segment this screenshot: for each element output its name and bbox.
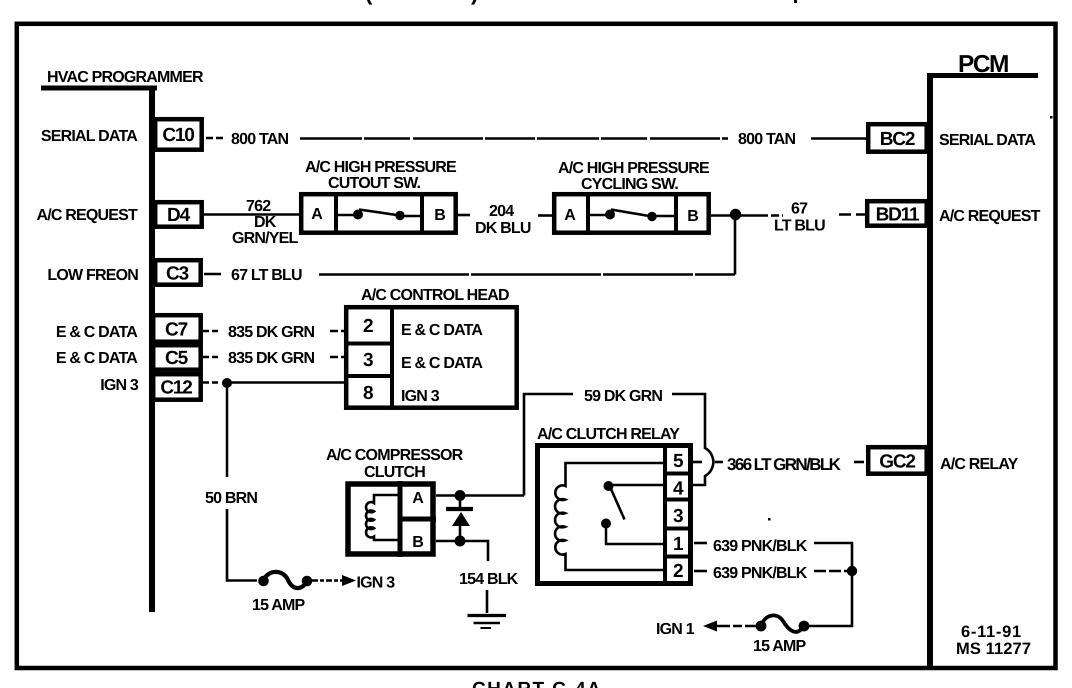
svg-text:A/C COMPRESSOR: A/C COMPRESSOR <box>326 447 464 464</box>
wire label 67 LT BLU (right) <box>774 201 825 235</box>
fuse 15 AMP (IGN 1) <box>756 615 810 631</box>
wire 59 DK GRN to relay pin 4 with hop <box>672 394 714 485</box>
wire tick C12 <box>203 381 219 384</box>
A/C control head body <box>344 305 517 410</box>
wire label 800 TAN (left) <box>231 131 288 148</box>
wire tick C10 <box>206 137 223 140</box>
cycling switch contacts and arm <box>590 210 675 222</box>
svg-text:MS 11277: MS 11277 <box>956 640 1031 658</box>
relay switch contact to pin 4 <box>604 481 666 491</box>
svg-text:C12: C12 <box>160 378 192 399</box>
relay pin 3 <box>673 506 683 527</box>
wire to BD11 <box>839 213 865 216</box>
compressor clutch pin B <box>412 534 424 551</box>
svg-text:A/C HIGH PRESSURE: A/C HIGH PRESSURE <box>305 159 457 176</box>
svg-text:A/C CLUTCH RELAY: A/C CLUTCH RELAY <box>537 426 680 443</box>
svg-text:4: 4 <box>673 479 684 500</box>
wire tick relay pin 2 <box>694 570 707 573</box>
svg-text:835 DK GRN: 835 DK GRN <box>228 350 314 367</box>
svg-text:A/C REQUEST: A/C REQUEST <box>939 208 1041 225</box>
svg-text:A/C CONTROL HEAD: A/C CONTROL HEAD <box>361 287 509 304</box>
svg-text:2: 2 <box>673 561 683 582</box>
svg-text:E & C DATA: E & C DATA <box>401 355 483 372</box>
connector GC2 <box>868 447 927 474</box>
relay pin 2 <box>673 561 683 582</box>
A/C high pressure cutout switch body <box>301 192 456 234</box>
svg-text:IGN 3: IGN 3 <box>401 388 440 405</box>
svg-text:800 TAN: 800 TAN <box>231 131 288 148</box>
svg-text:SERIAL DATA: SERIAL DATA <box>939 132 1036 149</box>
svg-text:67 LT BLU: 67 LT BLU <box>231 267 302 284</box>
svg-text:HVAC PROGRAMMER: HVAC PROGRAMMER <box>47 69 204 86</box>
wire 50 BRN vertical lower <box>227 509 257 581</box>
wire tick to head pin 2 <box>330 330 344 333</box>
svg-text:C5: C5 <box>165 348 189 369</box>
A/C high pressure cycling switch body <box>554 193 709 235</box>
svg-text:C7: C7 <box>165 320 188 341</box>
wire 67 LT BLU long <box>319 273 735 276</box>
A/C control head title <box>361 287 509 304</box>
svg-text:IGN 3: IGN 3 <box>357 575 396 592</box>
wire label to cycling switch <box>538 214 552 217</box>
svg-text:15 AMP: 15 AMP <box>753 638 807 655</box>
connector C5 <box>153 345 201 370</box>
wire clutch B to ground drop <box>436 541 488 561</box>
wire 800 TAN long <box>300 137 728 140</box>
relay switch arm <box>611 489 625 520</box>
relay pin 5 <box>673 451 684 472</box>
svg-text:639 PNK/BLK: 639 PNK/BLK <box>713 565 808 582</box>
svg-text:B: B <box>687 208 699 225</box>
label E & C DATA row 1 <box>56 324 138 341</box>
svg-text:CHART C-4A: CHART C-4A <box>472 679 602 688</box>
svg-text:C3: C3 <box>166 264 189 285</box>
svg-text:366 LT GRN/BLK: 366 LT GRN/BLK <box>727 455 842 474</box>
junction node 639 <box>847 566 857 576</box>
svg-text:67: 67 <box>791 201 808 218</box>
wire drop to fuse <box>809 571 852 626</box>
cutout switch pin B <box>434 207 446 224</box>
svg-text:A/C RELAY: A/C RELAY <box>940 456 1019 473</box>
label SERIAL DATA (left) <box>41 128 138 145</box>
svg-text:1: 1 <box>673 534 684 555</box>
wire tick C3 <box>204 273 221 276</box>
cropped title text top <box>365 0 1053 521</box>
diode D (clamp) <box>446 495 473 541</box>
svg-text:639 PNK/BLK: 639 PNK/BLK <box>713 538 808 555</box>
svg-text:C10: C10 <box>162 125 194 146</box>
svg-text:B: B <box>412 534 424 551</box>
cropped chart title bottom <box>472 679 602 688</box>
PCM boundary line <box>927 73 933 668</box>
net label IGN 3 <box>357 575 396 592</box>
relay pin 1 <box>673 534 684 555</box>
PCM top bar <box>927 73 1038 78</box>
wire label 835 DK GRN row 1 <box>228 324 314 341</box>
wire tick relay pin 1 <box>694 542 707 545</box>
wire pin 2 to junction <box>814 570 852 573</box>
svg-text:B: B <box>434 207 446 224</box>
wire 50 BRN vertical upper <box>226 383 229 477</box>
svg-text:SERIAL DATA: SERIAL DATA <box>41 128 138 145</box>
PCM label <box>958 51 1008 78</box>
label E & C DATA row 2 <box>56 350 138 367</box>
ground symbol <box>468 616 507 629</box>
cycling switch pin A <box>564 207 576 224</box>
control head pin 3 <box>363 350 373 371</box>
label A/C RELAY (right) <box>940 456 1019 473</box>
connector C12 <box>153 374 201 400</box>
wire 800 TAN to BC2 <box>811 137 866 140</box>
junction node diode top <box>455 490 466 501</box>
A/C compressor clutch body <box>348 481 436 557</box>
wire label 366 LT GRN/BLK <box>727 455 842 474</box>
svg-text:3: 3 <box>673 506 683 527</box>
relay pin 4 <box>673 479 684 500</box>
net label IGN 1 <box>656 621 695 638</box>
A/C high pressure cutout switch title <box>305 159 457 192</box>
relay coil <box>555 463 665 570</box>
control head pin 8 <box>363 383 373 404</box>
wire relay pin 5 output <box>693 461 723 464</box>
svg-text:835 DK GRN: 835 DK GRN <box>228 324 314 341</box>
control head label IGN 3 pin 8 <box>401 388 440 405</box>
label IGN 3 (left) <box>100 377 139 394</box>
svg-text:59 DK GRN: 59 DK GRN <box>584 388 662 405</box>
date label 6-11-91 <box>961 623 1022 641</box>
wire label 835 DK GRN row 2 <box>228 350 314 367</box>
connector C10 <box>155 119 202 150</box>
wire cycling B to junction <box>711 214 760 217</box>
compressor clutch pin A <box>412 490 424 507</box>
svg-text:LOW FREON: LOW FREON <box>47 267 138 284</box>
control head label E & C DATA pin 3 <box>401 355 483 372</box>
svg-text:154 BLK: 154 BLK <box>459 571 519 588</box>
junction node diode bottom <box>455 536 466 547</box>
svg-text:5: 5 <box>673 451 684 472</box>
wire D4 to cutout switch <box>204 213 299 216</box>
wire label 762 DK GRN/YEL <box>232 198 299 247</box>
svg-text:LT BLU: LT BLU <box>774 218 825 235</box>
control head label E & C DATA pin 2 <box>401 322 483 339</box>
cycling switch pin B <box>687 208 699 225</box>
wire tick C7 <box>203 330 218 333</box>
cutout switch contacts and arm <box>338 210 421 221</box>
compressor clutch coil <box>366 495 398 540</box>
fuse label 15 AMP (left) <box>252 597 306 614</box>
wire label 800 TAN (right) <box>738 131 795 148</box>
svg-text:CLUTCH: CLUTCH <box>364 464 425 481</box>
connector C7 <box>153 315 201 342</box>
HVAC programmer boundary line <box>149 86 155 613</box>
svg-text:CYCLING SW.: CYCLING SW. <box>581 176 678 193</box>
svg-text:DK BLU: DK BLU <box>475 220 531 237</box>
junction node 67 LT BLU <box>730 209 741 220</box>
svg-text:D4: D4 <box>167 205 191 226</box>
svg-text:A: A <box>311 206 323 223</box>
svg-text:15 AMP: 15 AMP <box>252 597 306 614</box>
A/C clutch relay title <box>537 426 680 443</box>
A/C compressor clutch title <box>326 447 464 481</box>
fuse 15 AMP (IGN 3) <box>258 572 312 588</box>
svg-text:A: A <box>564 207 576 224</box>
svg-text:A/C HIGH PRESSURE: A/C HIGH PRESSURE <box>558 160 710 177</box>
svg-text:A: A <box>412 490 424 507</box>
arrow to IGN 1 <box>703 621 756 632</box>
HVAC PROGRAMMER label <box>47 69 204 86</box>
relay switch contact to pin 1 <box>601 519 665 545</box>
svg-text:DK: DK <box>254 214 277 231</box>
doc label MS 11277 <box>956 640 1031 658</box>
cutout switch pin A <box>311 206 323 223</box>
wire to ground <box>486 590 489 613</box>
arrow to IGN 3 <box>312 575 356 586</box>
svg-text:(: ( <box>365 0 373 5</box>
label A/C REQUEST (left) <box>36 207 138 224</box>
connector BD11 <box>867 201 927 226</box>
svg-text:800 TAN: 800 TAN <box>738 131 795 148</box>
connector C3 <box>155 260 201 285</box>
wire label 639 PNK/BLK pin 2 <box>713 565 808 582</box>
connector D4 <box>155 202 202 227</box>
svg-text:2: 2 <box>363 316 373 337</box>
wire label 639 PNK/BLK pin 1 <box>713 538 808 555</box>
wire junction riser <box>734 215 737 275</box>
svg-text:204: 204 <box>489 203 514 220</box>
svg-text:8: 8 <box>363 383 373 404</box>
svg-text:E & C DATA: E & C DATA <box>56 324 138 341</box>
svg-text:A/C REQUEST: A/C REQUEST <box>36 207 138 224</box>
wire tick to head pin 3 <box>330 356 344 359</box>
svg-text:6-11-91: 6-11-91 <box>961 623 1022 641</box>
svg-text:GC2: GC2 <box>879 452 915 473</box>
label A/C REQUEST (right) <box>939 208 1041 225</box>
wire clutch A to riser <box>436 494 524 497</box>
svg-text:BC2: BC2 <box>880 129 915 150</box>
wire label 59 DK GRN <box>584 388 662 405</box>
wire tick C5 <box>203 356 218 359</box>
wire cutout B to label <box>458 214 470 217</box>
wire C12 to head pin 8 <box>227 381 344 384</box>
svg-text:BD11: BD11 <box>876 205 920 226</box>
wire label 204 DK BLU <box>475 203 531 237</box>
A/C high pressure cycling switch title <box>558 160 710 193</box>
svg-text:CUTOUT SW.: CUTOUT SW. <box>328 175 421 192</box>
svg-text:GRN/YEL: GRN/YEL <box>232 230 299 247</box>
wire label 50 BRN <box>205 490 257 507</box>
svg-text:50 BRN: 50 BRN <box>205 490 257 507</box>
label SERIAL DATA (right) <box>939 132 1036 149</box>
control head pin 2 <box>363 316 373 337</box>
svg-text:E & C DATA: E & C DATA <box>56 350 138 367</box>
A/C clutch relay body <box>538 443 694 586</box>
svg-text:762: 762 <box>246 198 271 215</box>
connector BC2 <box>868 124 927 152</box>
svg-text:3: 3 <box>363 350 373 371</box>
wire to GC2 <box>854 461 864 464</box>
junction node IGN3 split <box>222 378 232 388</box>
wire pin 1 to drop <box>814 543 852 571</box>
svg-text:IGN 3: IGN 3 <box>100 377 139 394</box>
fuse label 15 AMP (right) <box>753 638 807 655</box>
wire label 67 LT BLU (left) <box>231 267 302 284</box>
svg-text:IGN 1: IGN 1 <box>656 621 695 638</box>
svg-text:): ) <box>471 0 478 5</box>
wire to label 67 <box>760 214 783 217</box>
wire label 154 BLK <box>459 571 519 588</box>
svg-text:E & C DATA: E & C DATA <box>401 322 483 339</box>
HVAC programmer top bar <box>41 86 157 91</box>
label LOW FREON <box>47 267 138 284</box>
wire 59 DK GRN riser <box>524 394 573 496</box>
